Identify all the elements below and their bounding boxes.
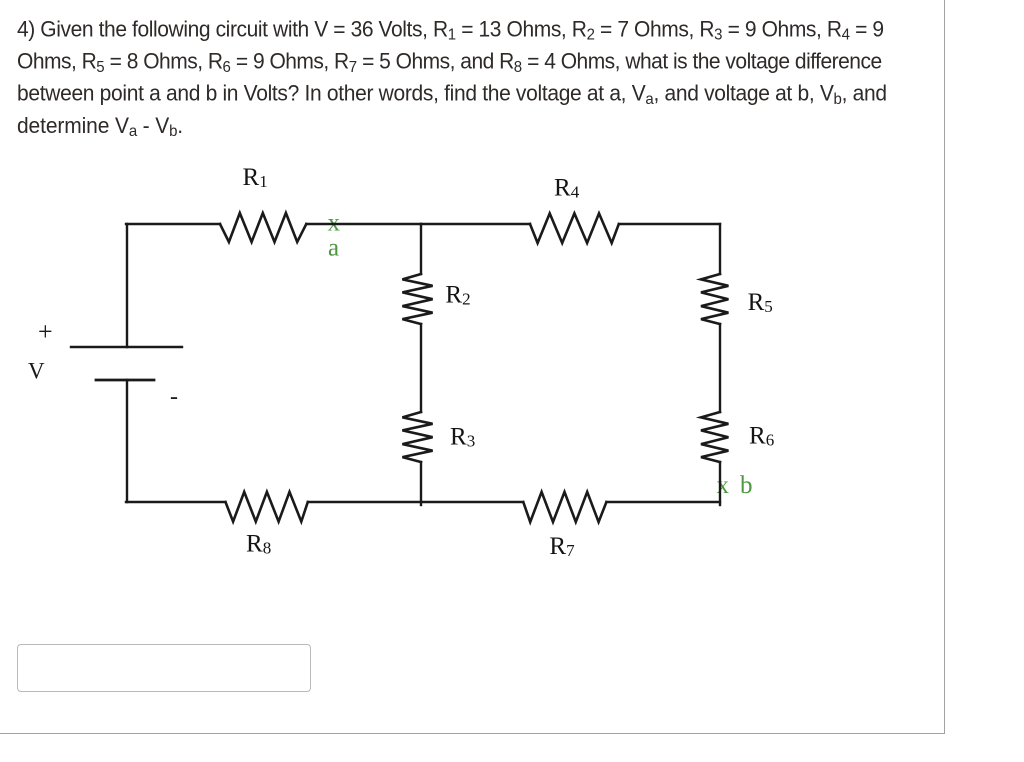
label R4	[554, 175, 580, 202]
question text	[17, 14, 957, 142]
label R5	[748, 289, 773, 316]
svg-text:R7: R7	[549, 533, 575, 560]
resistor R3	[402, 412, 432, 462]
wire right vertical middle	[719, 324, 721, 412]
resistor R7	[523, 492, 606, 522]
node a marker x	[328, 209, 341, 236]
resistor R1	[220, 213, 306, 242]
wire bottom-left horizontal	[126, 501, 226, 503]
wire middle junction to R4	[421, 223, 530, 225]
answer input box	[17, 644, 311, 692]
node b label	[740, 472, 753, 499]
wire right vertical upper	[719, 224, 721, 274]
label R7	[549, 533, 575, 560]
resistor R2	[402, 274, 432, 324]
label R3	[450, 424, 475, 451]
svg-text:R2: R2	[445, 282, 470, 309]
resistor R4	[530, 213, 619, 243]
wire left vertical upper	[126, 224, 128, 347]
label plus sign	[38, 317, 53, 346]
wire R1 to node a to middle junction	[306, 223, 421, 225]
battery V positive plate	[71, 346, 182, 348]
wire R4 to top-right corner	[619, 223, 720, 225]
resistor R5	[701, 274, 728, 324]
node a label	[328, 234, 339, 261]
battery V negative plate	[96, 379, 154, 382]
svg-text:R4: R4	[554, 175, 580, 202]
wire battery negative plate to bottom wire	[126, 380, 128, 502]
resistor R6	[701, 412, 728, 462]
svg-text:V: V	[28, 359, 45, 384]
wire middle vertical lower	[420, 462, 422, 505]
wire bottom-right horizontal	[606, 501, 720, 503]
label R2	[445, 282, 470, 309]
node b marker x	[717, 472, 730, 499]
wire middle vertical upper	[420, 224, 422, 274]
svg-text:x: x	[717, 472, 730, 499]
label R8	[246, 531, 271, 558]
svg-text:R8: R8	[246, 531, 271, 558]
svg-text:+: +	[38, 317, 53, 346]
wire bottom-middle horizontal	[308, 501, 524, 503]
label R1	[243, 164, 268, 191]
label V source	[28, 359, 45, 384]
svg-text:a: a	[328, 234, 339, 261]
label minus sign	[170, 384, 178, 410]
wire top-left horizontal	[126, 223, 220, 225]
svg-text:-: -	[170, 384, 178, 410]
svg-text:R1: R1	[243, 164, 268, 191]
svg-text:R3: R3	[450, 424, 475, 451]
svg-text:R5: R5	[748, 289, 773, 316]
svg-text:R6: R6	[749, 422, 774, 449]
wire middle vertical between R2 and R3	[420, 324, 422, 412]
wire right vertical lower through node b	[719, 462, 721, 505]
label R6	[749, 422, 774, 449]
resistor R8	[226, 492, 308, 522]
svg-text:b: b	[740, 472, 753, 499]
